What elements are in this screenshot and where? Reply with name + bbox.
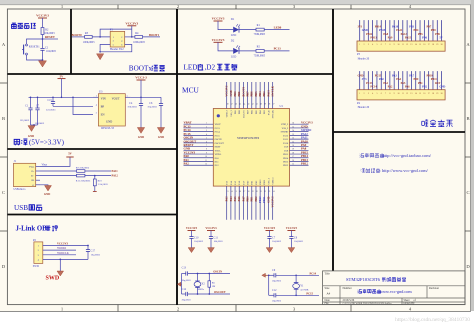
ground (C7) [266,248,273,253]
net PC13 [264,50,289,52]
svg-text:9: 9 [394,93,395,95]
svg-text:25: 25 [292,164,294,166]
svg-text:104,0603: 104,0603 [272,240,282,243]
svg-text:40: 40 [260,103,262,105]
svg-text:8: 8 [389,44,390,46]
section label 复位电路 [12,23,36,28]
svg-text:104,0603: 104,0603 [294,240,304,243]
ground (C6) [157,128,164,134]
svg-text:PC15: PC15 [215,135,221,137]
capacitor C8 [289,236,293,238]
svg-text:PC14: PC14 [310,272,317,275]
capacitor C11 [209,236,213,238]
svg-text:Vbus: Vbus [42,163,47,166]
svg-text:BOOT0: BOOT0 [242,86,245,96]
ground (jlink) [57,271,64,276]
mcu left pins [184,123,214,125]
svg-text:PA2: PA2 [388,85,393,88]
svg-text:C11: C11 [214,237,219,240]
svg-text:OSCOUT: OSCOUT [214,291,226,294]
svg-text:2: 2 [206,126,207,128]
svg-text:16: 16 [423,44,425,46]
svg-text:VCC3V3: VCC3V3 [212,38,225,42]
svg-text:16: 16 [239,191,241,193]
svg-text:C14: C14 [182,288,187,291]
svg-text:C15: C15 [48,99,53,102]
svg-text:PB10: PB10 [426,75,433,78]
svg-text:J-Link OB: J-Link OB [16,226,48,233]
svg-text:32: 32 [292,138,294,140]
svg-text:Header 20: Header 20 [358,57,370,60]
svg-text:SWCLK: SWCLK [273,110,275,118]
svg-text:VCC3V3: VCC3V3 [286,226,298,230]
ground (C4) [137,128,144,134]
svg-text:www.vcc-gnd.com: www.vcc-gnd.com [380,289,412,294]
svg-text:1: 1 [359,93,360,95]
svg-text:23: 23 [268,191,270,193]
svg-text:12: 12 [406,93,408,95]
svg-text:PC15: PC15 [375,75,382,78]
ground (C11) [208,248,215,253]
resistor R6 1M [208,274,210,281]
svg-text:41: 41 [256,103,258,105]
svg-text:4: 4 [372,93,373,95]
crystal Y2 8MHz [197,274,199,282]
svg-text:PB1: PB1 [251,196,254,202]
mcu top pins [226,82,228,109]
svg-text:42: 42 [252,103,254,105]
svg-text:5: 5 [376,93,377,95]
svg-text:PA0: PA0 [379,78,384,81]
wire vcc loop left [100,29,132,37]
svg-text:PA3: PA3 [392,75,397,78]
svg-text:20p,0603: 20p,0603 [182,279,192,282]
svg-text:VCC3V3: VCC3V3 [57,243,68,246]
svg-text:2016/5/26: 2016/5/26 [343,298,355,302]
svg-text:PB0: PB0 [414,78,419,81]
svg-text:2: 2 [364,44,365,46]
svg-text:B: B [466,116,469,121]
svg-text:PA12: PA12 [283,134,289,137]
svg-text:7: 7 [385,93,386,95]
svg-text:14: 14 [415,44,417,46]
svg-text:Revision: Revision [429,287,440,290]
title block [323,271,465,305]
svg-text:16: 16 [423,93,425,95]
svg-text:VDDA: VDDA [215,153,222,156]
svg-text:PB15: PB15 [283,154,289,156]
svg-text:G: G [32,184,34,187]
svg-text:PB4: PB4 [414,29,419,32]
svg-text:MCU: MCU [182,86,200,95]
svg-text:13: 13 [410,44,412,46]
wire BP [53,105,93,107]
svg-text:VCC3V3: VCC3V3 [264,226,276,230]
svg-text:20: 20 [441,93,443,95]
svg-text:GND: GND [230,90,233,96]
svg-text:35: 35 [292,126,294,128]
svg-text:8: 8 [389,93,390,95]
svg-text:6: 6 [381,44,382,46]
svg-text:GND: GND [158,136,164,139]
svg-text:3V3: 3V3 [362,78,367,81]
svg-text:106,0603: 106,0603 [127,106,137,109]
input bus wire [29,96,94,98]
gnd arrow (32k) [268,275,270,295]
wire G to gnd [40,184,48,187]
resistor R11 [40,175,77,177]
svg-text:BOOT0: BOOT0 [243,109,245,117]
svg-text:C12: C12 [272,289,277,292]
svg-text:18: 18 [432,93,434,95]
svg-text:BOOTx: BOOTx [129,64,153,72]
svg-text:PA15: PA15 [267,90,270,97]
svg-text:5V: 5V [439,36,442,39]
svg-text:24: 24 [273,191,275,193]
svg-text:PB10: PB10 [260,179,262,185]
capacitor C7 [267,236,271,238]
svg-text:3: 3 [368,93,369,95]
svg-text:GND: GND [44,193,50,196]
svg-text:7: 7 [206,145,207,147]
ground (C10) [188,248,195,253]
forum url line [361,168,380,172]
svg-text:PA12: PA12 [112,175,119,178]
svg-text:,D2: ,D2 [205,63,216,71]
wire pin4 to gnd [43,259,61,271]
resistor R3 [85,36,93,39]
svg-text:Title: Title [325,273,331,276]
svg-text:PA6: PA6 [405,85,410,88]
svg-text:10: 10 [205,156,207,158]
svg-text:PB3: PB3 [263,91,266,97]
wire header to R4 [125,36,135,38]
svg-text:VCC3V3: VCC3V3 [272,196,275,207]
svg-text:C10: C10 [194,237,199,240]
svg-text:750R,0805: 750R,0805 [254,54,266,57]
svg-text:STM32F103C8T6: STM32F103C8T6 [237,136,260,140]
svg-text:PC14: PC14 [370,85,377,88]
svg-text:3: 3 [206,130,207,132]
block divider lines [70,9,72,74]
svg-text:R11 22R,0603: R11 22R,0603 [76,179,91,182]
svg-text:SWD: SWD [46,275,60,281]
svg-text:PB7: PB7 [426,26,431,29]
svg-text:SWDIO: SWDIO [281,132,289,134]
number text [358,289,381,293]
wire R3 to header [92,36,110,38]
svg-text:7: 7 [385,44,386,46]
resistor R10 pullup [94,175,96,177]
svg-text:PA11: PA11 [396,29,403,32]
gnd loop wires [100,45,132,52]
svg-text:11: 11 [402,44,404,46]
svg-text:45: 45 [239,103,241,105]
svg-text:PB12: PB12 [283,165,289,167]
svg-text:LED0: LED0 [274,25,282,29]
svg-text:11: 11 [402,93,404,95]
svg-text:C: C [2,190,5,195]
gnd arrow (8M) [181,274,183,295]
svg-text:36: 36 [292,123,294,125]
svg-text:PB2: PB2 [422,85,427,88]
svg-text:13: 13 [410,93,412,95]
svg-text:PC13: PC13 [274,47,281,51]
svg-text:ID: ID [32,179,35,182]
svg-text:VSS_1: VSS_1 [268,177,270,184]
capacitor C15 bypass [52,97,54,101]
svg-text:20p,0603: 20p,0603 [182,299,192,302]
svg-text:D2: D2 [231,39,235,42]
svg-text:GND: GND [439,85,445,88]
svg-text:http://vcc-gnd.taobao.com/: http://vcc-gnd.taobao.com/ [383,153,432,158]
svg-text:12: 12 [406,44,408,46]
svg-text:GND: GND [362,29,368,32]
svg-text:D1: D1 [231,18,235,21]
svg-text:SWD: SWD [33,265,39,268]
gnd rail left caps [31,124,38,126]
capacitor C4 [140,97,142,103]
svg-text:GND: GND [138,136,144,139]
svg-text:VCC3V3: VCC3V3 [36,14,49,18]
svg-text:19: 19 [436,93,438,95]
svg-text:14: 14 [415,93,417,95]
svg-text:VCC3V3: VCC3V3 [212,17,225,21]
node RESET [42,38,44,40]
section label 对外端子 [422,119,453,126]
capacitor C2 [40,48,44,50]
svg-text:VSS_2: VSS_2 [282,128,289,130]
svg-text:104,0603: 104,0603 [214,240,224,243]
svg-text:PC13: PC13 [215,128,221,130]
svg-text:20: 20 [441,44,443,46]
ground (power in) [28,126,35,132]
svg-text:: http://www.vcc-gnd.com/: : http://www.vcc-gnd.com/ [380,168,429,173]
svg-text:6: 6 [206,141,207,143]
svg-text:B: B [2,116,5,121]
svg-text:19: 19 [252,191,254,193]
svg-text:46: 46 [235,103,237,105]
svg-text:PA10: PA10 [283,142,289,145]
svg-text:100K,0603: 100K,0603 [83,41,95,44]
svg-text:PB8: PB8 [238,91,241,97]
svg-text:22: 22 [264,191,266,193]
svg-text:32.768K: 32.768K [300,288,309,291]
svg-text:Number: Number [343,287,352,290]
svg-text:VDD_3: VDD_3 [227,109,229,117]
svg-text:OSCIN: OSCIN [215,139,222,141]
svg-text:30: 30 [292,145,294,147]
svg-text:VDD_2: VDD_2 [281,124,289,126]
header P3 Header 20 [359,20,361,41]
svg-text:C13: C13 [182,266,187,269]
svg-text:SWCLK: SWCLK [272,85,275,96]
svg-text:21: 21 [260,191,262,193]
svg-text:3: 3 [368,44,369,46]
capacitor C6 [160,97,162,103]
svg-text:PA15: PA15 [405,36,412,39]
svg-text:3V3: 3V3 [358,26,363,29]
vout rail [131,96,161,98]
svg-text:37: 37 [273,103,275,105]
svg-text:LED: LED [184,63,198,71]
svg-text:R9 22R,0603: R9 22R,0603 [76,166,90,169]
svg-text:39: 39 [264,103,266,105]
svg-text:47: 47 [231,103,233,105]
net LED0 [264,29,289,31]
section label 电源(5V=3.3V) [14,139,27,145]
svg-text:PB0: PB0 [247,196,250,202]
header P4 Header 20 [359,71,361,90]
ground (bootx) [97,54,104,60]
svg-text:18: 18 [432,44,434,46]
svg-text:PA11: PA11 [112,170,119,173]
svg-text:Vbus: Vbus [29,165,34,168]
svg-text:17: 17 [428,44,430,46]
svg-text:PB5: PB5 [255,91,258,97]
capacitor C17 [87,245,89,247]
svg-text:USB: USB [14,204,28,212]
svg-text:RESET: RESET [45,35,55,39]
svg-text:SWDCLK: SWDCLK [57,252,69,255]
svg-text:43: 43 [247,103,249,105]
svg-text:104,0603: 104,0603 [194,240,204,243]
svg-text:PA4: PA4 [396,78,401,81]
svg-text:104,0603: 104,0603 [91,254,101,257]
svg-text:LED: LED [231,56,236,59]
svg-text:https://blog.csdn.net/qq_38410: https://blog.csdn.net/qq_38410730 [395,317,470,323]
svg-text:5: 5 [376,44,377,46]
wire Vbus to 5V [40,157,70,166]
svg-text:C:\VCC-GND WORK FILE\STM32F103: C:\VCC-GND WORK FILE\STM32F103C8T6.SchDo… [343,303,392,305]
svg-text:1.5k,0603: 1.5k,0603 [98,183,109,186]
svg-text:12: 12 [205,164,207,166]
svg-text:20: 20 [256,191,258,193]
svg-text:STM32F103C8T6: STM32F103C8T6 [346,277,381,282]
svg-text:PA15: PA15 [267,109,270,115]
svg-text:Drawn By:: Drawn By: [404,302,416,305]
svg-text:PB13: PB13 [370,36,377,39]
svg-text:U1: U1 [280,105,284,108]
svg-text:PB12: PB12 [301,162,308,166]
svg-text:4: 4 [372,44,373,46]
wire EN [73,97,93,114]
svg-text:D-: D- [32,170,35,173]
svg-text:VCC3V3: VCC3V3 [125,22,138,26]
svg-text:20p,0603: 20p,0603 [272,280,282,283]
bottom wire [27,55,43,60]
svg-text:Size: Size [325,287,331,290]
svg-text:PB11: PB11 [263,196,266,203]
svg-text:11: 11 [205,160,207,162]
svg-text:SWDIO: SWDIO [57,247,66,250]
svg-text:PB14: PB14 [283,158,289,160]
svg-text:VSS_3: VSS_3 [231,109,233,116]
svg-text:PB10: PB10 [259,196,262,203]
push button S1 [26,44,28,46]
svg-text:GND: GND [358,75,364,78]
svg-text:C17: C17 [91,249,96,252]
svg-text:PB13: PB13 [283,162,289,164]
ground (usb) [45,186,52,192]
taobao url line [360,153,385,157]
wire vcc drop right [131,29,133,37]
svg-text:GND: GND [267,197,270,203]
svg-text:VDD_1: VDD_1 [273,177,275,185]
svg-text:26: 26 [292,160,294,162]
svg-text:19: 19 [436,44,438,46]
svg-text:PB4: PB4 [259,91,262,97]
svg-text:4: 4 [206,134,207,136]
svg-text:9: 9 [206,152,207,154]
svg-text:VIN: VIN [101,97,107,101]
svg-text:PB2: PB2 [255,196,258,202]
ground (C8) [288,248,295,253]
svg-text:PA7: PA7 [409,75,414,78]
svg-text:13: 13 [227,191,229,193]
svg-text:NRST: NRST [215,147,221,149]
svg-text:BOOT1: BOOT1 [149,33,160,37]
svg-text:28: 28 [292,152,294,154]
svg-text:VCC3V3: VCC3V3 [205,226,217,230]
svg-text:VOUT: VOUT [112,97,120,101]
svg-text:PB15: PB15 [379,29,386,32]
resistor R4 [135,36,143,39]
svg-text:VCC3-3: VCC3-3 [135,76,147,80]
capacitor C10 [189,236,193,238]
svg-text:31: 31 [292,141,294,143]
svg-text:A4: A4 [327,292,331,296]
svg-text:34: 34 [292,130,294,132]
svg-text:PB3: PB3 [409,26,414,29]
svg-text:15: 15 [419,44,421,46]
svg-text:PB7: PB7 [247,91,250,97]
svg-text:1: 1 [359,44,360,46]
svg-text:PB8: PB8 [431,29,436,32]
svg-text:RT9193-33: RT9193-33 [101,127,114,130]
svg-text:PB14: PB14 [375,26,382,29]
sheet outer border [0,4,471,6]
svg-text:Header 3X2: Header 3X2 [110,48,124,51]
svg-text:PA3: PA3 [226,196,229,202]
svg-text:U3: U3 [99,91,103,94]
svg-text:20p,0603: 20p,0603 [272,300,282,303]
svg-text:PB9: PB9 [234,91,237,97]
capacitor C7 [37,97,39,108]
mcu right pins [290,123,309,125]
svg-text:PB6: PB6 [251,91,254,97]
svg-text:PC15: PC15 [306,292,313,295]
svg-text:5: 5 [206,138,207,140]
svg-text:10: 10 [397,93,399,95]
svg-text:9: 9 [394,44,395,46]
capacitor C1 [30,97,32,108]
svg-text:PC14: PC14 [215,132,221,134]
wires to nets [43,245,88,247]
resistor R2 [41,28,44,35]
svg-text:GND: GND [106,120,112,124]
svg-text:VCC3V3: VCC3V3 [186,226,198,230]
svg-text:BP: BP [101,104,105,108]
svg-text:PA4: PA4 [230,196,233,202]
svg-text:PA6: PA6 [238,196,241,202]
svg-text:PA2: PA2 [184,162,190,166]
svg-text:PA7: PA7 [242,196,245,202]
svg-text:VSSA: VSSA [215,149,221,152]
svg-text:PB6: PB6 [422,36,427,39]
svg-text:PB11: PB11 [264,179,266,185]
resistor R9 [40,170,77,172]
